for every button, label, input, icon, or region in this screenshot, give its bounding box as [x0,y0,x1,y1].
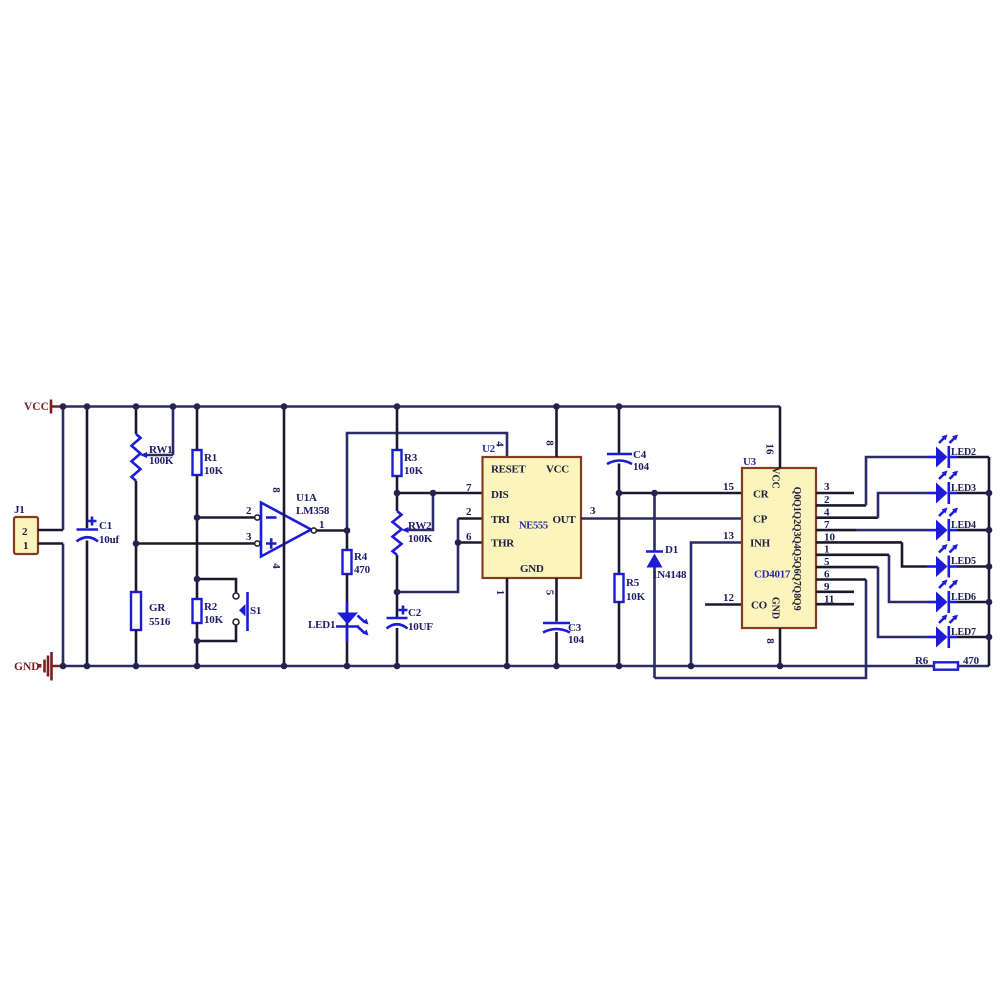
capacitor C1 [77,407,120,667]
svg-text:10uf: 10uf [99,534,120,546]
svg-text:Q5: Q5 [791,548,802,561]
svg-text:5: 5 [544,590,556,596]
IC U2 NE555 [482,443,581,578]
LED LED3 [927,471,989,505]
svg-text:CR: CR [753,489,770,501]
svg-text:10K: 10K [404,465,424,477]
connector J1 [14,504,38,554]
wire CR pin15 [619,492,742,495]
svg-text:100K: 100K [408,533,433,545]
junction dots GND rail [60,663,784,670]
wire TRI/THR to C2 top [397,519,458,593]
switch S1 [197,579,261,641]
svg-text:C4: C4 [633,449,647,461]
svg-text:LED1: LED1 [308,619,335,631]
U3 GND pin8 wire [779,628,782,666]
VCC power symbol [24,400,62,414]
LED LED2 [927,435,989,469]
NE555 VCC pin wire [555,407,558,458]
svg-text:GND: GND [520,563,544,575]
resistor R4 [343,531,371,667]
svg-text:Q7: Q7 [791,573,802,586]
svg-text:Q4: Q4 [791,536,802,549]
U3 VCC pin16 wire [779,407,782,469]
svg-text:1: 1 [494,590,506,596]
svg-text:Q0: Q0 [791,487,802,500]
wire Q1 pin2 to LED2 [816,504,866,507]
LED LED5 [927,544,989,578]
wire Q7 feedback to D1 [655,580,867,679]
svg-text:GND: GND [770,597,781,619]
wire RW1/GR to op-amp pin3 [136,542,255,545]
svg-text:RESET: RESET [491,464,527,476]
svg-text:15: 15 [723,481,735,493]
svg-text:LED3: LED3 [951,483,976,494]
svg-text:10K: 10K [626,591,646,603]
op-amp power wire pin8/pin4 [283,407,286,667]
svg-text:Q1: Q1 [791,499,802,512]
svg-text:11: 11 [824,594,834,606]
svg-text:LM358: LM358 [296,505,330,517]
op-amp U1A [261,492,330,557]
wire VCC to J1 pin2 [62,407,65,531]
wire J1 pin2 [38,529,63,532]
op-amp input pin circles [255,515,260,520]
wire output node up to RESET net [347,433,507,531]
svg-text:GR: GR [149,602,166,614]
svg-text:5516: 5516 [149,616,171,628]
svg-text:C1: C1 [99,520,112,532]
svg-text:Q9: Q9 [791,598,802,611]
resistor R2 [193,599,224,666]
photoresistor GR [131,592,171,666]
svg-text:C3: C3 [568,622,582,634]
svg-text:R6: R6 [915,655,929,667]
svg-text:TRI: TRI [491,514,510,526]
svg-text:Q8: Q8 [791,585,802,598]
svg-text:5: 5 [824,556,830,568]
svg-text:8: 8 [270,487,282,493]
svg-text:C2: C2 [408,607,422,619]
svg-text:CD4017: CD4017 [754,569,791,581]
svg-text:LED2: LED2 [951,447,976,458]
LED LED7 [927,615,989,649]
wire Q8 stub pin9 [816,590,854,593]
potentiometer RW2 [393,493,434,592]
svg-text:2: 2 [22,526,28,538]
svg-text:D1: D1 [665,544,678,556]
svg-text:RW2: RW2 [408,520,432,532]
svg-text:VCC: VCC [770,467,781,489]
svg-text:CO: CO [751,600,768,612]
svg-text:10K: 10K [204,465,224,477]
wire INH pin13 to GND [691,543,742,667]
svg-text:10K: 10K [204,614,224,626]
junction dots VCC rail [60,403,623,410]
svg-text:4: 4 [494,441,506,447]
svg-text:8: 8 [764,638,776,644]
wire Q0 stub pin3 [816,492,854,495]
svg-text:104: 104 [633,461,650,473]
wire Q4 pin10 to LED5 [816,541,902,544]
diode D1 [646,493,687,678]
LED LED6 [927,580,989,614]
wire Q2 pin4 to LED3 [816,516,878,519]
svg-text:1: 1 [824,544,830,556]
svg-text:LED7: LED7 [951,627,976,638]
svg-text:LED4: LED4 [951,520,976,531]
svg-text:Q6: Q6 [791,561,802,574]
wire CO pin12 stub [705,603,742,606]
resistor R5 [615,574,646,666]
wire Q9 stub pin11 [816,603,854,606]
svg-text:10: 10 [824,532,836,544]
svg-text:VCC: VCC [24,401,49,413]
wire Q3 pin7 to LED4 [816,529,856,532]
resistor R1 [193,407,224,600]
wire GND rail right of R6 [958,665,989,668]
svg-text:3: 3 [246,531,252,543]
svg-text:4: 4 [270,563,282,569]
LED LED4 [927,508,989,542]
resistor R6 [915,655,980,670]
svg-text:U3: U3 [743,456,757,468]
svg-text:S1: S1 [250,605,261,617]
wire THR pin6 stub [458,541,483,544]
svg-text:R1: R1 [204,452,217,464]
NE555 GND pin wire [506,578,509,666]
svg-text:9: 9 [824,581,830,593]
GND rail [62,665,934,668]
svg-text:J1: J1 [14,504,25,516]
svg-text:U1A: U1A [296,492,317,504]
svg-text:6: 6 [466,531,472,543]
VCC rail [62,405,780,408]
svg-text:7: 7 [466,482,472,494]
svg-text:NE555: NE555 [519,521,548,532]
wire J1 pin1 [38,542,63,545]
capacitor C3 [543,622,585,666]
svg-text:10UF: 10UF [408,621,433,633]
wire Q7 pin6 stub [816,578,866,581]
svg-text:VCC: VCC [546,464,569,476]
svg-text:R2: R2 [204,601,218,613]
op-amp output circle [311,528,316,533]
wire DIS pin7 [397,492,483,495]
svg-text:7: 7 [824,519,830,531]
svg-text:100K: 100K [149,455,174,467]
svg-text:1N4148: 1N4148 [652,569,687,581]
wire OUT pin3 to CP [581,517,742,520]
IC U3 CD4017 [742,456,816,628]
svg-text:13: 13 [723,530,735,542]
svg-text:INH: INH [750,538,771,550]
svg-text:R3: R3 [404,452,418,464]
svg-text:LED5: LED5 [951,556,976,567]
capacitor C2 [387,592,434,666]
capacitor C4 [607,407,650,575]
svg-text:OUT: OUT [553,514,577,526]
svg-text:THR: THR [491,538,515,550]
svg-text:GND: GND [14,661,40,673]
svg-text:12: 12 [723,592,735,604]
svg-text:16: 16 [764,444,776,456]
wire R1 to op-amp pin2 [197,516,255,519]
svg-text:LED6: LED6 [951,592,976,603]
wire J1 pin1 to GND [62,544,65,667]
svg-text:CP: CP [753,514,768,526]
svg-text:DIS: DIS [491,489,509,501]
svg-text:4: 4 [824,507,830,519]
svg-text:3: 3 [590,505,596,517]
svg-text:Q2: Q2 [791,511,802,524]
svg-text:3: 3 [824,481,830,493]
svg-text:6: 6 [824,569,830,581]
resistor R3 [393,407,424,512]
LED LED1 [308,602,369,642]
svg-text:104: 104 [568,634,585,646]
svg-text:Q3: Q3 [791,524,802,537]
svg-text:8: 8 [544,440,556,446]
GND symbol [14,652,62,681]
wire Q6 pin5 to LED7 [816,566,878,569]
potentiometer RW1 [132,407,174,593]
junction dots mid circuit [133,490,658,645]
svg-text:2: 2 [246,505,252,517]
junction dots LED rail [986,490,993,641]
svg-text:470: 470 [354,564,371,576]
svg-text:1: 1 [319,519,325,531]
svg-text:2: 2 [466,506,472,518]
svg-text:2: 2 [824,494,830,506]
wire op-amp output [316,529,347,532]
svg-text:470: 470 [963,655,980,667]
wire LED cathode rail [988,457,991,666]
wire TRI pin2 stub [458,517,483,520]
svg-text:R4: R4 [354,551,368,563]
svg-text:R5: R5 [626,577,640,589]
svg-text:1: 1 [23,540,28,552]
NE555 pin5 wire [555,578,558,622]
wire Q5 pin1 to LED6 [816,553,889,556]
